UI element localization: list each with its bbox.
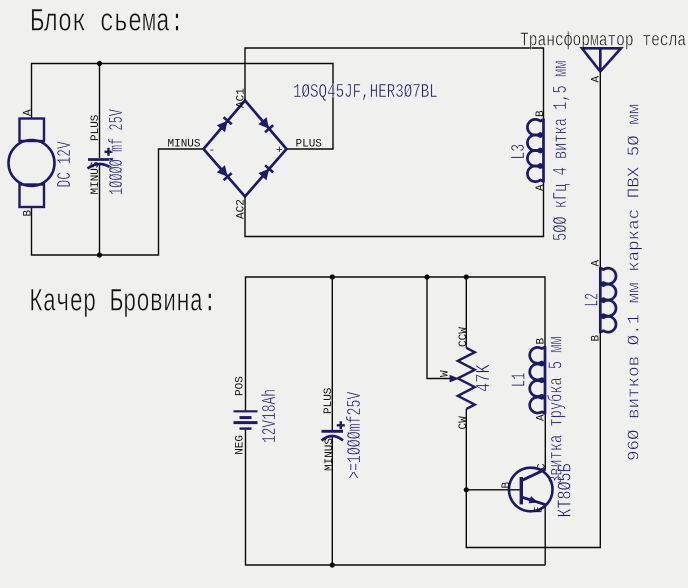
svg-text:A: A xyxy=(535,184,547,191)
svg-text:PLUS: PLUS xyxy=(90,114,102,141)
wire: bottom rail motor B to bridge - xyxy=(32,149,204,255)
svg-text:Звитка трубка 5 мм: Звитка трубка 5 мм xyxy=(547,336,569,484)
svg-text:L1: L1 xyxy=(510,373,532,387)
svg-text:L3: L3 xyxy=(509,144,531,160)
svg-text:B: B xyxy=(501,482,513,489)
svg-text:Блок сьема:: Блок сьема: xyxy=(30,5,184,41)
inductor L2 xyxy=(600,268,616,332)
svg-text:MINUS: MINUS xyxy=(324,438,336,471)
inductor L1 xyxy=(530,347,545,413)
svg-text:W: W xyxy=(440,370,452,377)
wire: outer loop battery circuit xyxy=(246,277,546,411)
svg-text:NEG: NEG xyxy=(234,435,246,455)
svg-text:MINUS: MINUS xyxy=(90,161,102,194)
bridge rectifier diamond xyxy=(204,101,287,197)
antenna (tesla top electrode) xyxy=(582,48,621,71)
node: C2 top xyxy=(330,274,335,279)
wire: collector to L1 xyxy=(544,413,546,469)
capacitor C2 >=1000mf25V xyxy=(322,430,344,433)
node: C1 top junction xyxy=(97,61,102,66)
node: wiper top xyxy=(424,274,429,279)
svg-text:A: A xyxy=(591,260,603,267)
svg-text:DC 12V: DC 12V xyxy=(55,141,77,188)
node: pot top xyxy=(464,274,469,279)
svg-text:Качер Бровина:: Качер Бровина: xyxy=(30,285,217,321)
potentiometer R1 47K xyxy=(458,348,475,409)
svg-text:-: - xyxy=(209,145,216,157)
wire: pot bottom / base net / L2 return xyxy=(466,332,600,547)
svg-text:B: B xyxy=(23,210,35,217)
diode D4 (AC2 to plus) xyxy=(258,169,269,180)
emitter arrow xyxy=(529,496,539,503)
svg-text:A: A xyxy=(23,109,35,116)
wire: pot top branch xyxy=(465,277,467,348)
wiper arrow xyxy=(450,375,460,383)
svg-text:КТ8Ø5Б: КТ8Ø5Б xyxy=(556,464,578,518)
svg-text:POS: POS xyxy=(234,376,246,396)
wire: base lead xyxy=(466,489,521,491)
wire: PLUS rail from motor A to bridge + xyxy=(32,64,334,150)
svg-text:1ØØØØ mf 25V: 1ØØØØ mf 25V xyxy=(107,108,129,195)
svg-text:5ØØ кГц 4 витка 1,5 мм: 5ØØ кГц 4 витка 1,5 мм xyxy=(551,61,573,241)
svg-text:12V18Ah: 12V18Ah xyxy=(260,389,282,443)
diode D2 (AC1 to plus) xyxy=(258,117,269,128)
wire: antenna to L2 xyxy=(599,72,601,269)
svg-text:47K: 47K xyxy=(474,364,496,392)
svg-text:MINUS: MINUS xyxy=(168,138,201,150)
capacitor C1 10000mf 25V xyxy=(88,158,113,161)
svg-text:C: C xyxy=(536,463,548,470)
wire: wiper branch xyxy=(427,277,451,379)
svg-text:96Ø витков Ø.1 мм каркас ПВХ 5: 96Ø витков Ø.1 мм каркас ПВХ 5Ø мм xyxy=(625,104,644,461)
battery BT1 12V18Ah xyxy=(234,410,258,412)
svg-text:CW: CW xyxy=(458,416,470,430)
wire: AC1 to L3 top xyxy=(245,48,544,120)
svg-text:E: E xyxy=(534,506,546,513)
svg-text:B: B xyxy=(535,110,547,117)
svg-text:1ØSQ45JF,HER3Ø7BL: 1ØSQ45JF,HER3Ø7BL xyxy=(293,82,438,104)
svg-text:PLUS: PLUS xyxy=(323,387,335,414)
svg-text:+: + xyxy=(276,145,283,157)
wire: AC2 to L3 bottom xyxy=(245,182,544,237)
node: C1 bottom junction xyxy=(97,252,102,257)
wire: C2 branch xyxy=(331,277,333,565)
svg-text:>=1ØØØmf25V: >=1ØØØmf25V xyxy=(345,391,367,479)
inductor L3 xyxy=(527,119,543,181)
motor M1 DC 12V xyxy=(20,119,45,142)
wire: emitter to bottom rail xyxy=(544,505,546,566)
node: base junction xyxy=(464,487,469,492)
diode D1 (minus to AC1) xyxy=(217,121,228,132)
diode D3 (minus to AC2) xyxy=(217,165,228,176)
node: C2 bottom xyxy=(330,562,335,567)
svg-text:CCW: CCW xyxy=(458,327,470,347)
transistor Q1 КТ805Б xyxy=(509,468,553,512)
svg-text:A: A xyxy=(591,76,603,83)
wire: capacitor C1 branch xyxy=(99,64,101,256)
svg-text:L2: L2 xyxy=(583,293,605,306)
svg-text:PLUS: PLUS xyxy=(296,138,323,150)
